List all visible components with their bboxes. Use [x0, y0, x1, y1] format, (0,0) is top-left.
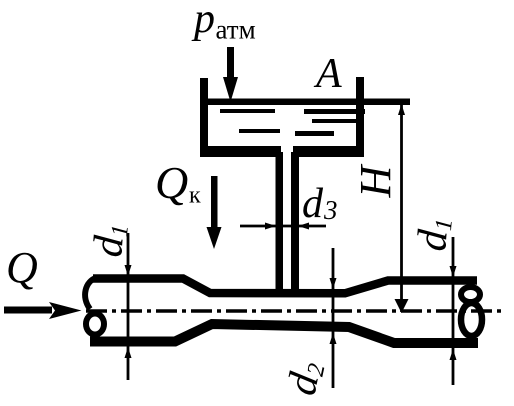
svg-text:Q: Q	[155, 157, 188, 208]
svg-text:H: H	[351, 164, 400, 199]
svg-text:A: A	[313, 51, 342, 97]
svg-text:p: p	[191, 0, 215, 42]
svg-text:атм: атм	[216, 15, 256, 45]
svg-text:к: к	[189, 183, 201, 209]
svg-text:Q: Q	[6, 243, 38, 292]
